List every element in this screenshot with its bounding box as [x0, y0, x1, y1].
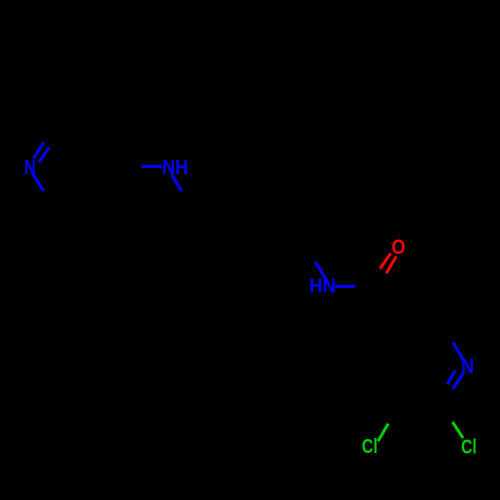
- wire: CH2-HN bond (blue half): [315, 262, 328, 284]
- wire: C6-Cl bond (green half): [453, 422, 464, 438]
- wire: C2-N single bond (blue half): [453, 343, 464, 361]
- svg-text:O: O: [392, 236, 406, 259]
- wire: N1=C2 double bond main line (blue half): [33, 143, 43, 159]
- svg-text:Cl: Cl: [461, 436, 477, 458]
- wire: NH-CH2 bond (blue half): [172, 175, 182, 191]
- wire: C=O double bond line 1 (red half): [380, 253, 391, 269]
- wire: HN-C(=O) bond (blue half): [335, 285, 355, 288]
- svg-text:HN: HN: [309, 276, 336, 298]
- wire: N=C6 double bond main line (blue half): [453, 373, 463, 389]
- wire: C=O double bond line 2 (red half): [386, 256, 396, 273]
- wire: N1=C2 double bond inner line (blue half): [39, 147, 49, 162]
- svg-text:NH: NH: [162, 157, 188, 179]
- wire: C4-NH bond (blue half): [142, 165, 162, 168]
- svg-text:Cl: Cl: [362, 436, 378, 458]
- wire: N1-C6 single bond (blue half): [32, 173, 43, 191]
- wire: N=C6 double bond inner line (blue half): [447, 371, 455, 385]
- wire: C5-Cl bond (green half): [378, 424, 388, 442]
